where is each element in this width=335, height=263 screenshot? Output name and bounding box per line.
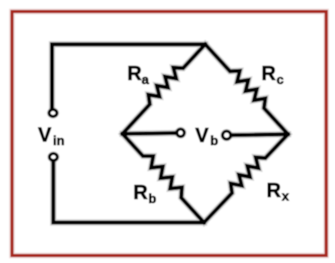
resistor Rc (between top node and right node) <box>205 44 288 134</box>
svg-text:R: R <box>261 63 276 85</box>
svg-text:V: V <box>38 125 52 147</box>
svg-text:V: V <box>195 125 209 147</box>
wire: Vb - terminal to right node <box>230 134 288 135</box>
svg-text:in: in <box>53 133 65 148</box>
resistor Rx (between right node and bottom node) <box>204 134 288 222</box>
terminal: Vin + <box>49 110 57 117</box>
wire: from Vin - terminal down then right to bottom node <box>53 161 204 223</box>
svg-text:R: R <box>267 180 282 202</box>
wire: from Vin + terminal up then right to top node <box>52 44 205 109</box>
svg-text:b: b <box>148 191 156 206</box>
terminal: Vb + <box>177 129 184 136</box>
svg-text:R: R <box>127 63 142 85</box>
svg-text:a: a <box>142 72 150 87</box>
svg-text:R: R <box>133 182 148 204</box>
terminal: Vin - <box>50 154 58 161</box>
resistor Rb (between left node and bottom node) <box>123 134 205 223</box>
terminal: Vb - <box>223 131 231 139</box>
resistor Ra (between top node and left node) <box>123 44 206 134</box>
wire: left node to Vb + terminal <box>123 131 178 136</box>
svg-text:c: c <box>277 72 284 87</box>
svg-text:x: x <box>282 189 290 204</box>
svg-text:b: b <box>210 133 218 148</box>
